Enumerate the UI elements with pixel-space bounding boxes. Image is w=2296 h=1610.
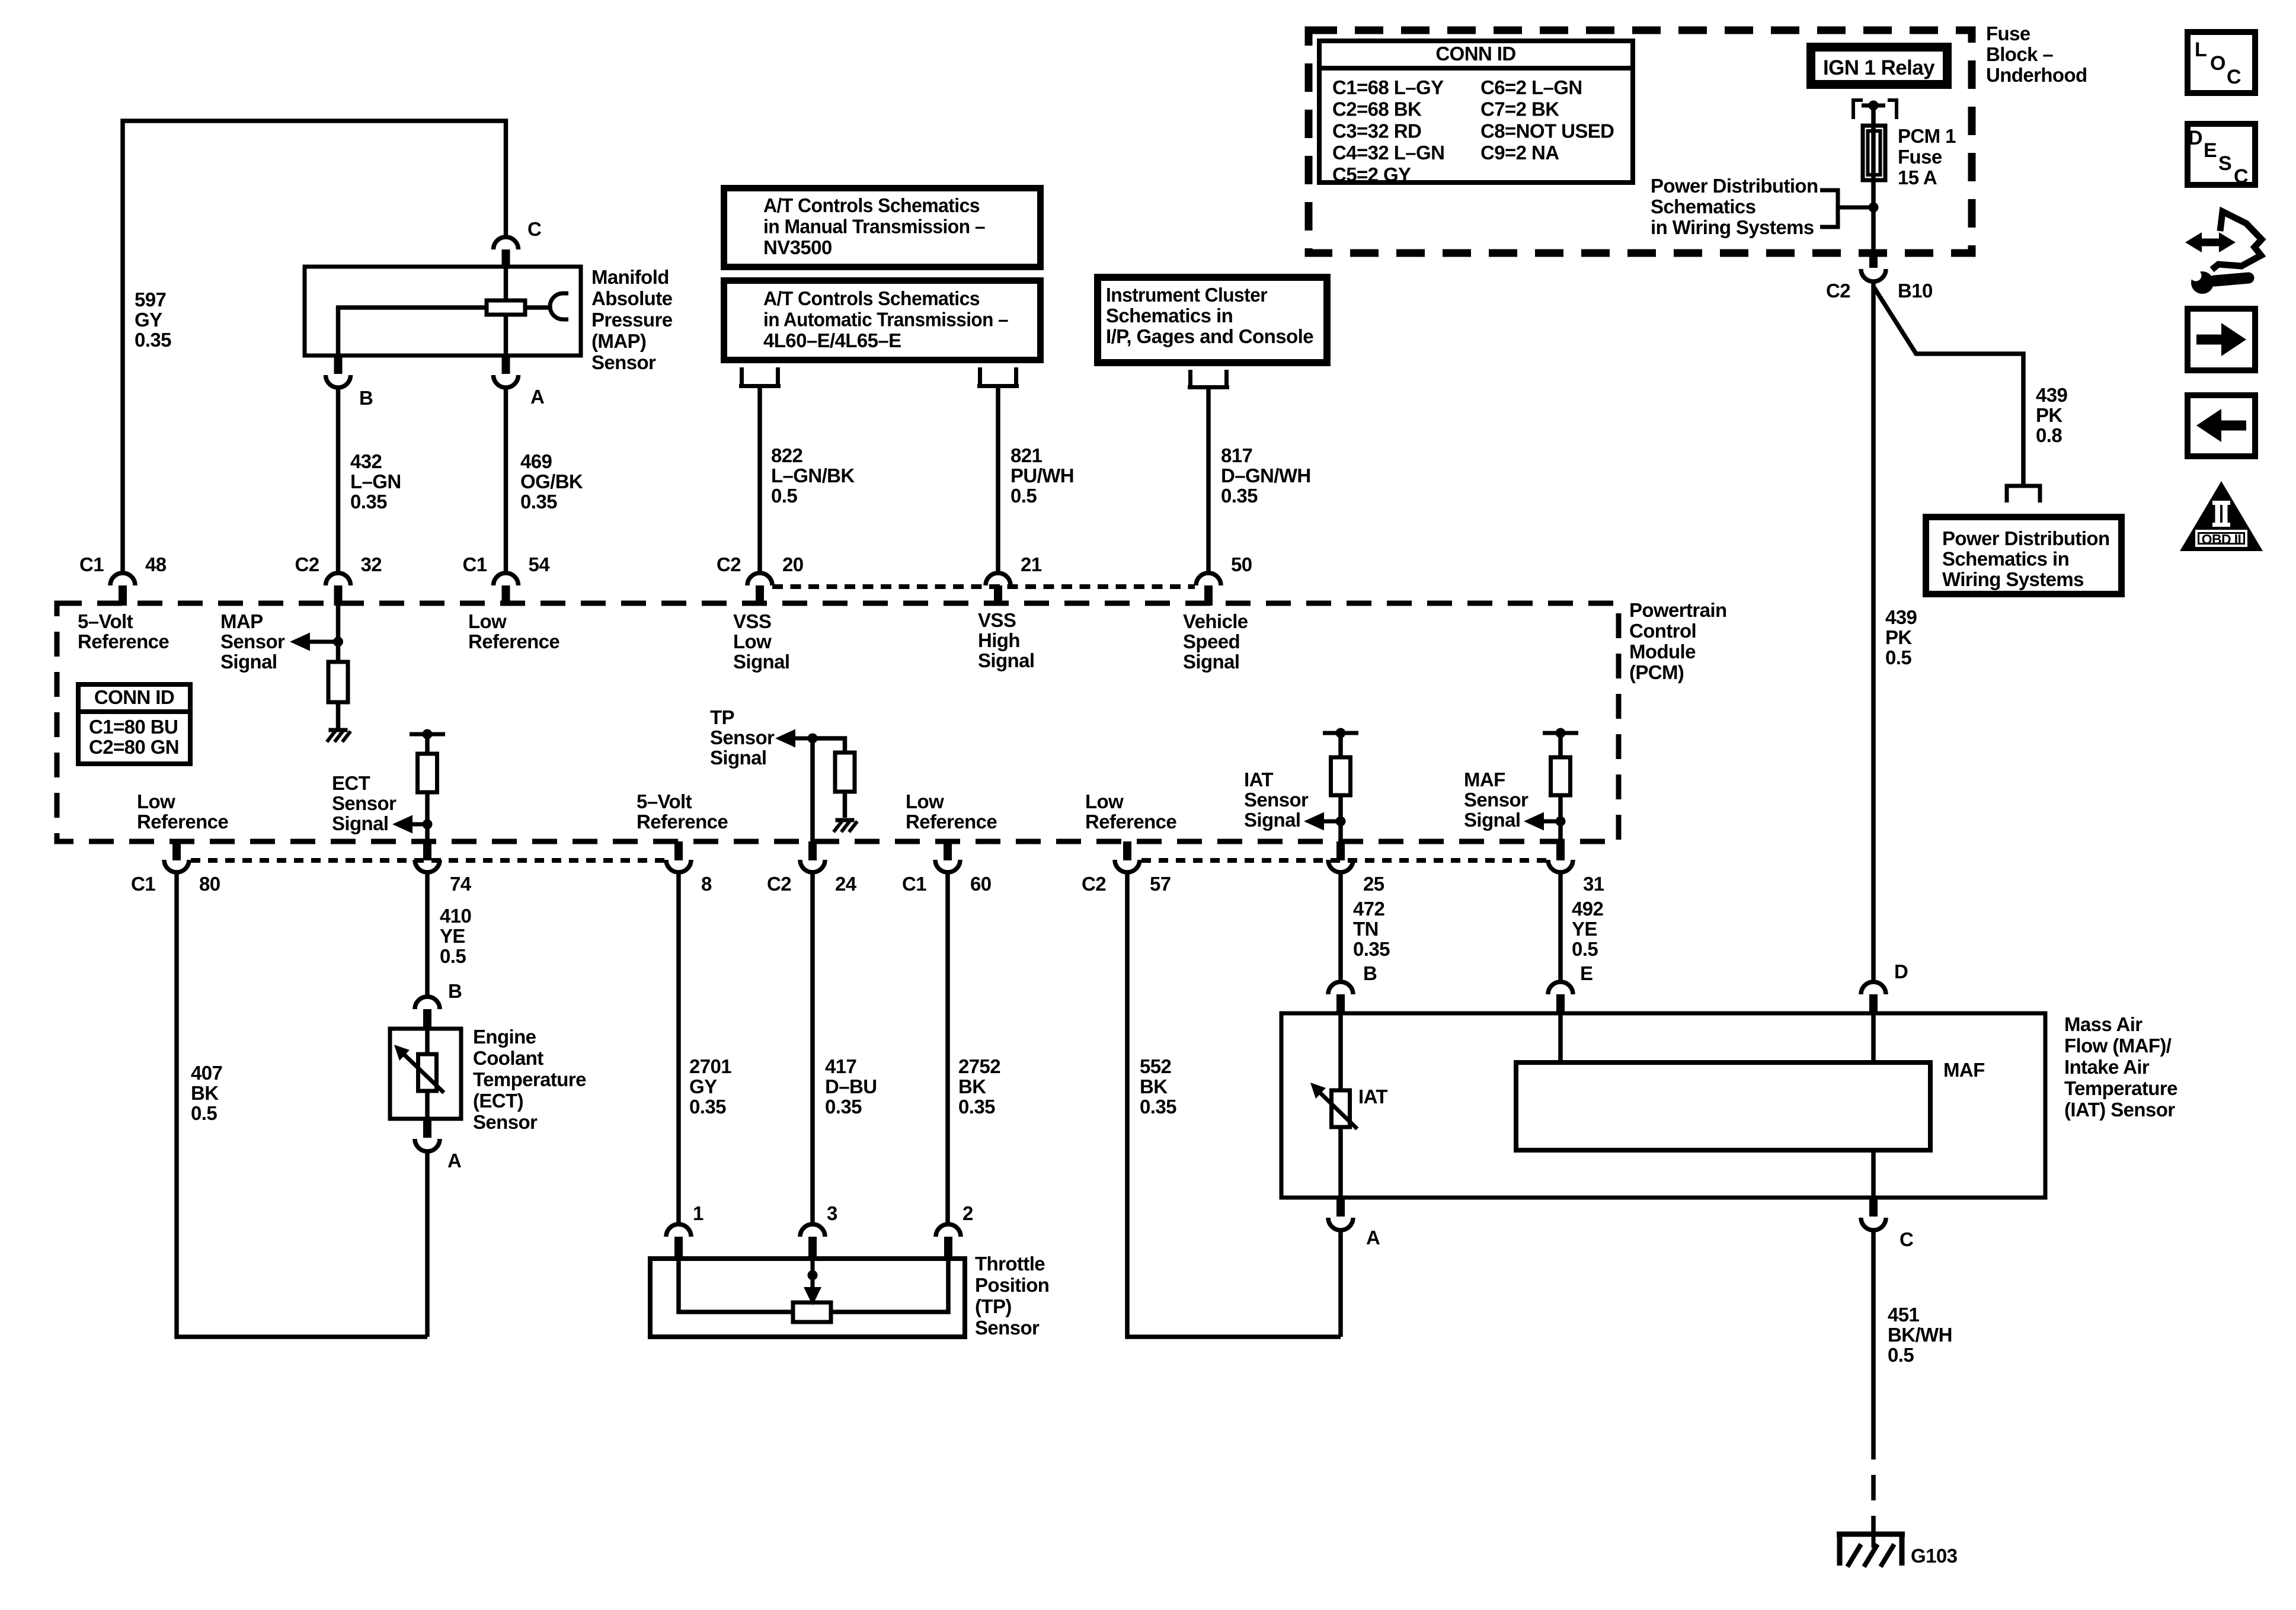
label wire 2701 GY 0.35 <box>689 1055 731 1118</box>
icon OBD II triangle <box>2180 481 2263 551</box>
pin label A (ECT) <box>447 1150 461 1172</box>
svg-text:Signal: Signal <box>710 747 766 769</box>
connector pin B at ECT sensor <box>415 997 440 1029</box>
svg-text:PCM 1: PCM 1 <box>1898 125 1956 147</box>
label MAP Sensor Signal (pin 32) <box>220 610 285 673</box>
node MAP signal junction <box>333 637 343 647</box>
svg-text:Sensor: Sensor <box>332 792 396 814</box>
pin label 32 <box>361 553 382 575</box>
svg-text:C1=68 L–GY: C1=68 L–GY <box>1332 76 1444 98</box>
svg-text:B: B <box>1363 962 1377 984</box>
pin label C (MAF) <box>1900 1228 1913 1250</box>
reference box A/T Controls Schematics in Manual Transmission NV3500 <box>724 188 1041 267</box>
svg-text:0.35: 0.35 <box>1221 485 1258 507</box>
label Throttle Position (TP) Sensor <box>975 1253 1049 1339</box>
svg-text:0.35: 0.35 <box>350 491 387 513</box>
svg-text:0.35: 0.35 <box>520 491 557 513</box>
pin label 24 <box>835 873 857 895</box>
svg-text:IAT: IAT <box>1358 1086 1387 1108</box>
svg-text:L–GN: L–GN <box>350 470 401 492</box>
svg-text:BK: BK <box>958 1076 986 1097</box>
svg-text:Reference: Reference <box>637 811 728 833</box>
svg-text:C2: C2 <box>1082 873 1106 895</box>
wire T-bar to resistor (ECT) <box>425 734 430 754</box>
svg-text:15 A: 15 A <box>1898 167 1937 188</box>
svg-text:57: 57 <box>1150 873 1171 895</box>
wire 417 D-BU (pin 24 to TP 3) <box>810 872 815 1225</box>
label MAF Sensor Signal (pin 31) <box>1464 769 1528 831</box>
thermistor IAT <box>1310 1083 1357 1129</box>
svg-text:25: 25 <box>1363 873 1384 895</box>
ECT sensor box <box>390 1029 461 1119</box>
label wire 472 TN 0.35 <box>1353 898 1390 960</box>
wire 492 YE (pin 31 to MAF E) <box>1558 872 1563 981</box>
wire inside ECT sensor <box>425 1029 430 1119</box>
svg-text:0.35: 0.35 <box>135 329 171 351</box>
pin label B (ECT) <box>448 980 462 1002</box>
connector pin 31 at PCM bottom <box>1548 841 1573 872</box>
pin label 54 <box>529 553 551 575</box>
svg-text:D–BU: D–BU <box>825 1076 877 1097</box>
svg-text:Schematics in: Schematics in <box>1106 305 1233 327</box>
pin label B (MAP) <box>359 387 373 409</box>
svg-text:472: 472 <box>1353 898 1385 920</box>
svg-text:Absolute: Absolute <box>591 287 673 309</box>
fuse PCM 1 15A <box>1863 126 1885 180</box>
label wire 552 BK 0.35 <box>1140 1055 1176 1118</box>
wire from relay to PCM 1 fuse <box>1871 105 1876 253</box>
svg-text:NV3500: NV3500 <box>763 236 832 258</box>
svg-text:IGN 1 Relay: IGN 1 Relay <box>1823 56 1935 79</box>
pin label E (MAF) <box>1580 962 1593 984</box>
svg-text:C2=68 BK: C2=68 BK <box>1332 98 1422 120</box>
icon route with wrench <box>2185 212 2262 294</box>
node TP signal junction <box>808 734 818 744</box>
wire T-bar to resistor (MAF) <box>1558 733 1563 757</box>
icon forward arrow box <box>2188 309 2255 370</box>
resistor inside MAP sensor <box>487 300 525 315</box>
svg-text:C1: C1 <box>463 553 487 575</box>
svg-text:C2: C2 <box>717 553 741 575</box>
svg-text:(TP): (TP) <box>975 1295 1012 1317</box>
wire 439 PK 0.5 (to MAF pin D) <box>1871 281 1876 981</box>
svg-text:B: B <box>448 980 462 1002</box>
IGN 1 Relay box <box>1811 47 1948 85</box>
off-page bracket below A/T box (wire 822) <box>739 367 781 386</box>
svg-text:Reference: Reference <box>906 811 997 833</box>
pin label D (MAF) <box>1894 961 1908 982</box>
label Mass Air Flow (MAF)/Intake Air Temperature (IAT) Sensor <box>2064 1013 2177 1121</box>
label Vehicle Speed Signal (pin 50) <box>1183 610 1248 673</box>
svg-text:31: 31 <box>1583 873 1604 895</box>
wire 2701 GY (pin 8 to TP 1) <box>676 872 681 1225</box>
label MAP sensor <box>591 266 673 373</box>
svg-text:MAP: MAP <box>220 610 263 632</box>
svg-text:3: 3 <box>827 1202 837 1224</box>
svg-text:1: 1 <box>693 1202 703 1224</box>
wire 472 TN (pin 25 to IAT B) <box>1338 872 1343 981</box>
wire TP signal inside PCM <box>810 738 815 841</box>
svg-text:822: 822 <box>771 444 803 466</box>
svg-text:YE: YE <box>1572 918 1597 940</box>
svg-text:C2: C2 <box>295 553 319 575</box>
wire 822 L-GN/BK (to PCM C2-20) <box>757 388 762 572</box>
icon back arrow box <box>2188 395 2255 456</box>
wire 817 D-GN/WH (to PCM 50) <box>1206 389 1211 572</box>
svg-text:Temperature: Temperature <box>2064 1077 2177 1099</box>
svg-text:Temperature: Temperature <box>473 1068 586 1090</box>
svg-text:5–Volt: 5–Volt <box>637 790 692 812</box>
svg-text:BK/WH: BK/WH <box>1888 1324 1952 1346</box>
svg-text:(PCM): (PCM) <box>1629 661 1684 683</box>
svg-text:OG/BK: OG/BK <box>520 470 583 492</box>
wire ECT A down to 407 <box>425 1151 430 1337</box>
svg-text:B10: B10 <box>1898 280 1933 302</box>
svg-text:Low: Low <box>137 790 175 812</box>
svg-text:Mass Air: Mass Air <box>2064 1013 2142 1035</box>
svg-text:Engine: Engine <box>473 1026 536 1048</box>
connector pin 80 at PCM bottom <box>164 841 189 872</box>
label wire 417 D-BU 0.35 <box>825 1055 877 1118</box>
svg-text:0.5: 0.5 <box>1572 938 1598 960</box>
label Powertrain Control Module (PCM) <box>1629 599 1727 683</box>
svg-text:ECT: ECT <box>332 772 370 794</box>
label TP Sensor Signal <box>710 706 775 769</box>
svg-text:2: 2 <box>962 1202 973 1224</box>
connector pin C at MAP sensor <box>494 237 519 267</box>
svg-text:439: 439 <box>1885 606 1917 628</box>
pin label C1 (pin 60) <box>902 873 926 895</box>
svg-text:Reference: Reference <box>468 630 559 652</box>
connector pin B at IAT sensor <box>1328 982 1353 1013</box>
svg-text:597: 597 <box>135 289 166 311</box>
connector pin 21 at PCM top <box>986 573 1011 606</box>
wire resistor to pin 31 (MAF) <box>1558 795 1563 841</box>
svg-text:Fuse: Fuse <box>1986 23 2030 44</box>
wire resistor to pin 74 (ECT) <box>425 792 430 841</box>
dotted connector line (pins 20-21-50) <box>772 584 1195 589</box>
wire TP pin 2 to track <box>831 1259 948 1312</box>
svg-text:Pressure: Pressure <box>591 309 673 331</box>
wire IAT A down to 552 <box>1338 1230 1343 1337</box>
pin label 20 <box>782 553 804 575</box>
wire IAT inside sensor box <box>1338 1013 1343 1198</box>
pin label 60 <box>970 873 992 895</box>
wire 410 YE (pin 74 to ECT B) <box>425 872 430 996</box>
pin label 8 <box>701 873 712 895</box>
svg-text:in Wiring Systems: in Wiring Systems <box>1651 216 1814 238</box>
MAP sensor box <box>305 267 581 356</box>
svg-text:O: O <box>2210 52 2225 75</box>
MAF/IAT sensor outer box <box>1281 1013 2045 1198</box>
connector pin 24 at PCM bottom <box>800 841 825 872</box>
pin label 80 <box>199 873 220 895</box>
wiper arrow TP <box>804 1259 821 1305</box>
bracket to power distribution schematics text <box>1820 190 1838 227</box>
svg-text:C2: C2 <box>767 873 791 895</box>
resistor MAF signal pull-up <box>1551 757 1571 795</box>
label 5-Volt Reference (pin 48) <box>78 610 169 652</box>
svg-text:PK: PK <box>2036 404 2062 426</box>
label wire 492 YE 0.5 <box>1572 898 1604 960</box>
svg-text:0.35: 0.35 <box>1140 1096 1176 1118</box>
svg-text:0.5: 0.5 <box>440 945 466 967</box>
dotted connector line (pins 80-74-8) <box>191 858 665 863</box>
wire 451 BK/WH (MAF C to G103) <box>1871 1230 1876 1532</box>
svg-text:4L60–E/4L65–E: 4L60–E/4L65–E <box>763 329 901 351</box>
label ECT Sensor Signal (pin 74) <box>332 772 396 834</box>
svg-text:D–GN/WH: D–GN/WH <box>1221 465 1311 486</box>
label wire 432 L-GN 0.35 <box>350 450 401 513</box>
connector pin 20 at PCM top <box>747 573 772 606</box>
svg-text:817: 817 <box>1221 444 1252 466</box>
wire T-bar to resistor (IAT) <box>1338 733 1343 757</box>
svg-text:821: 821 <box>1011 444 1043 466</box>
wire 552 BK (C2-57 to IAT A) <box>1127 872 1341 1337</box>
wire from resistor to output arc <box>525 305 551 310</box>
svg-text:(ECT): (ECT) <box>473 1090 523 1112</box>
label MAF (inner box) <box>1943 1059 1985 1081</box>
arrow ECT sensor signal <box>392 815 427 834</box>
svg-text:Flow (MAF)/: Flow (MAF)/ <box>2064 1035 2172 1057</box>
svg-text:C5=2 GY: C5=2 GY <box>1332 164 1411 185</box>
connector pin A at IAT sensor <box>1328 1198 1353 1230</box>
svg-text:Sensor: Sensor <box>591 351 656 373</box>
dotted connector line (pins 57-25-31) <box>1141 858 1547 863</box>
svg-text:A/T Controls Schematics: A/T Controls Schematics <box>763 287 980 309</box>
connector pin 57 at PCM bottom <box>1115 841 1140 872</box>
svg-text:60: 60 <box>970 873 992 895</box>
label wire 410 YE 0.5 <box>440 905 471 967</box>
connector pin 74 at PCM bottom <box>415 841 440 872</box>
5-volt bus T-bar (ECT) <box>410 729 445 740</box>
svg-text:D: D <box>2188 127 2202 149</box>
pin label 31 <box>1583 873 1604 895</box>
svg-text:21: 21 <box>1021 553 1042 575</box>
pin label C2 (pin 20) <box>717 553 741 575</box>
svg-text:C: C <box>527 218 541 240</box>
CONN ID table (fuse block) <box>1317 41 1635 185</box>
svg-text:PK: PK <box>1885 626 1912 648</box>
pin label 2 (TP) <box>962 1202 973 1224</box>
svg-text:A: A <box>447 1150 461 1172</box>
pin label C (MAP) <box>527 218 541 240</box>
wire MAP signal inside PCM <box>336 606 341 662</box>
svg-text:MAF: MAF <box>1943 1059 1985 1081</box>
node ECT signal junction <box>423 820 433 830</box>
pin label C2 (pin 32) <box>295 553 319 575</box>
connector pin 1 at TP sensor <box>666 1224 691 1259</box>
wire TP junction to pulldown resistor <box>813 738 845 753</box>
pin label A (MAP) <box>530 386 544 408</box>
svg-text:C6=2 L–GN: C6=2 L–GN <box>1480 76 1582 98</box>
pin label 25 <box>1363 873 1384 895</box>
node IAT signal junction <box>1336 817 1346 827</box>
svg-text:TN: TN <box>1353 918 1379 940</box>
svg-text:20: 20 <box>782 553 804 575</box>
svg-text:in Automatic Transmission –: in Automatic Transmission – <box>763 309 1008 331</box>
wire 407 BK (C1-80 to ECT A) <box>177 872 427 1337</box>
off-page bracket below A/T box (wire 821) <box>977 367 1019 386</box>
wire MAF D inside sensor box <box>1871 1013 1876 1062</box>
connector pin 48 at PCM top <box>110 573 135 606</box>
svg-text:80: 80 <box>199 873 220 895</box>
svg-text:Throttle: Throttle <box>975 1253 1045 1275</box>
MAF inner box <box>1516 1062 1930 1150</box>
svg-text:Signal: Signal <box>332 812 388 834</box>
svg-text:D: D <box>1894 961 1908 982</box>
TP sensor box <box>650 1259 965 1337</box>
svg-text:Signal: Signal <box>978 649 1034 671</box>
node MAF signal junction <box>1556 817 1566 827</box>
svg-text:C1: C1 <box>131 873 155 895</box>
label IAT (thermistor) <box>1358 1086 1387 1108</box>
svg-text:Speed: Speed <box>1183 630 1240 652</box>
wire TP resistor to ground <box>843 792 848 818</box>
svg-text:C: C <box>2227 66 2241 88</box>
svg-text:(IAT) Sensor: (IAT) Sensor <box>2064 1099 2175 1121</box>
connector pin C at MAF sensor <box>1861 1198 1886 1230</box>
icon DESC box <box>2188 124 2255 188</box>
svg-text:Block –: Block – <box>1986 43 2053 65</box>
svg-text:Reference: Reference <box>1085 811 1176 833</box>
label PCM 1 Fuse 15 A <box>1898 125 1956 188</box>
svg-text:C8=NOT USED: C8=NOT USED <box>1480 120 1614 142</box>
svg-text:0.5: 0.5 <box>191 1102 217 1124</box>
svg-text:YE: YE <box>440 925 465 947</box>
pin label 50 <box>1231 553 1252 575</box>
svg-text:Power Distribution: Power Distribution <box>1942 527 2110 549</box>
connector pin E at MAF sensor <box>1548 982 1573 1013</box>
pin label C2 (pin 57) <box>1082 873 1106 895</box>
label Engine Coolant Temperature (ECT) Sensor <box>473 1026 586 1133</box>
svg-text:0.5: 0.5 <box>771 485 797 507</box>
wire inside MAP sensor (to pin B) <box>338 308 487 356</box>
wire 432 L-GN (MAP B to PCM C2-32) <box>336 388 341 572</box>
svg-text:407: 407 <box>191 1062 222 1084</box>
off-page bracket (439 PK 0.8) <box>2007 486 2040 502</box>
svg-text:Coolant: Coolant <box>473 1047 543 1069</box>
svg-text:C7=2 BK: C7=2 BK <box>1480 98 1559 120</box>
pin label C1 (pin 48) <box>79 553 104 575</box>
pin label C1 (pin 54) <box>463 553 487 575</box>
label Low Reference (pin 80) <box>137 790 228 833</box>
svg-text:Power Distribution: Power Distribution <box>1651 175 1818 197</box>
pin label 1 (TP) <box>693 1202 703 1224</box>
svg-text:0.8: 0.8 <box>2036 424 2062 446</box>
connector pin A at MAP sensor <box>494 356 519 388</box>
potentiometer track TP <box>793 1302 831 1322</box>
pin label 57 <box>1150 873 1171 895</box>
svg-text:C: C <box>2234 165 2248 188</box>
pin label B10 <box>1898 280 1933 302</box>
svg-text:Signal: Signal <box>1244 809 1300 831</box>
svg-text:Vehicle: Vehicle <box>1183 610 1248 632</box>
label wire 821 PU/WH 0.5 <box>1011 444 1074 507</box>
connector pin B at MAP sensor <box>326 356 351 388</box>
svg-text:(MAP): (MAP) <box>591 330 646 352</box>
wire 821 PU/WH (to PCM 21) <box>996 388 1000 572</box>
pin label 48 <box>145 553 167 575</box>
svg-text:C1=80 BU: C1=80 BU <box>89 716 178 738</box>
label wire 439 PK 0.8 <box>2036 384 2068 446</box>
label Fuse Block - Underhood <box>1986 23 2087 86</box>
reference box A/T Controls Schematics in Automatic Transmission 4L60-E/4L65-E <box>724 281 1041 360</box>
svg-text:Schematics in: Schematics in <box>1942 548 2069 570</box>
pin label C2 (B10 connector) <box>1826 280 1850 302</box>
svg-text:A: A <box>1366 1227 1380 1249</box>
connector pin 60 at PCM bottom <box>935 841 960 872</box>
fuse block underhood dashed box <box>1309 30 1972 253</box>
connector pin A at ECT sensor <box>415 1119 440 1151</box>
svg-text:GY: GY <box>135 309 162 331</box>
svg-text:BK: BK <box>1140 1076 1168 1097</box>
ground inside PCM (MAP signal) <box>327 730 351 742</box>
connector pin D at MAF sensor <box>1861 982 1886 1013</box>
label Low Reference (pin 60) <box>906 790 997 833</box>
svg-text:OBD II: OBD II <box>2202 532 2241 547</box>
pin label C2 (pin 24) <box>767 873 791 895</box>
wire TP pin 1 to track <box>679 1259 793 1312</box>
svg-text:C4=32 L–GN: C4=32 L–GN <box>1332 142 1444 164</box>
CONN ID table (PCM) <box>76 684 193 764</box>
resistor MAP signal pulldown <box>328 662 348 702</box>
connector pin 2 at TP sensor <box>936 1224 961 1259</box>
label Low Reference (pin 57) <box>1085 790 1176 833</box>
svg-text:2752: 2752 <box>958 1055 1000 1077</box>
svg-text:0.5: 0.5 <box>1888 1344 1914 1366</box>
svg-text:C1: C1 <box>79 553 104 575</box>
label VSS High Signal (pin 21) <box>978 609 1034 671</box>
pin label 3 (TP) <box>827 1202 837 1224</box>
svg-text:0.5: 0.5 <box>1011 485 1037 507</box>
label wire 407 BK 0.5 <box>191 1062 222 1124</box>
wire 469 OG/BK (MAP A to PCM C1-54) <box>504 388 509 572</box>
wire MAF E inside sensor box <box>1558 1013 1563 1062</box>
svg-text:410: 410 <box>440 905 471 927</box>
label wire 439 PK 0.5 <box>1885 606 1917 668</box>
svg-text:0.35: 0.35 <box>1353 938 1390 960</box>
svg-text:Sensor: Sensor <box>975 1317 1040 1339</box>
arrow IAT sensor signal <box>1304 812 1341 831</box>
connector pin 8 at PCM bottom <box>666 841 691 872</box>
svg-text:Reference: Reference <box>137 811 228 833</box>
label Low Reference (pin 54) <box>468 610 559 652</box>
svg-text:IAT: IAT <box>1244 769 1273 790</box>
svg-text:I/P, Gages and Console: I/P, Gages and Console <box>1106 325 1313 347</box>
svg-text:Sensor: Sensor <box>710 726 775 748</box>
svg-text:B: B <box>359 387 373 409</box>
svg-text:Low: Low <box>906 790 944 812</box>
svg-text:24: 24 <box>835 873 857 895</box>
svg-text:439: 439 <box>2036 384 2068 406</box>
connector pin 50 at PCM top <box>1196 573 1221 606</box>
svg-text:PU/WH: PU/WH <box>1011 465 1074 486</box>
svg-text:in Manual Transmission –: in Manual Transmission – <box>763 216 985 238</box>
svg-text:Reference: Reference <box>78 630 169 652</box>
svg-text:Wiring Systems: Wiring Systems <box>1942 568 2084 590</box>
svg-text:492: 492 <box>1572 898 1604 920</box>
svg-text:E: E <box>2204 139 2217 162</box>
svg-text:E: E <box>1580 962 1593 984</box>
label wire 2752 BK 0.35 <box>958 1055 1000 1118</box>
wire resistor to ground (MAP) <box>336 702 341 729</box>
arrow MAF sensor signal <box>1524 812 1560 831</box>
thermistor ECT <box>394 1045 444 1093</box>
svg-text:C2: C2 <box>1826 280 1850 302</box>
pin label 74 <box>450 873 472 895</box>
arrow MAP sensor signal <box>290 633 338 651</box>
